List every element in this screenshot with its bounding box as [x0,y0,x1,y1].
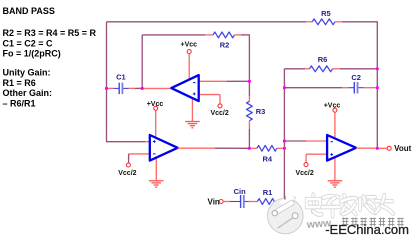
note text line [3,28,97,38]
svg-text:R2 = R3 = R4 = R5 = R: R2 = R3 = R4 = R5 = R [3,28,97,38]
note text line [3,67,51,77]
capacitor C2 [349,82,364,94]
terminal +Vcc U1 [187,50,191,54]
wire right feedback rail [376,21,378,148]
svg-text:Vcc/2: Vcc/2 [118,170,136,177]
U3 + mark [330,153,333,156]
svg-text:R2: R2 [220,41,230,50]
label Vcc/2 U3 [295,170,313,177]
wire top feedback net to R5 [107,21,307,23]
resistor R2 [205,32,249,38]
label Cin [234,187,247,196]
note text line [3,78,36,88]
capacitor C1 [113,83,128,95]
svg-text:+Vcc: +Vcc [324,102,341,109]
note text line [3,88,53,98]
wire +Vcc stub U3 [334,112,336,138]
wire R2 left vertical [141,35,143,89]
label R3 [256,107,266,116]
wire R2 right vertical to R3 [248,34,250,96]
terminal Vcc/2 U3 [304,163,308,167]
wire C1 left lead [107,87,114,89]
wire U2 - input stub to Vcc/2 [129,154,150,163]
watermark logo circle [268,196,304,234]
ground U3 [328,181,343,187]
label R6 [318,55,328,64]
label R4 [263,154,273,163]
op-amp U1 [171,75,198,101]
watermark brush text [307,195,393,217]
svg-text:R1 = R6: R1 = R6 [3,78,36,88]
resistor R1 [249,199,282,205]
wire U3 output [356,147,376,149]
wire U2 ground stub [155,157,157,181]
ground U1 [185,122,200,128]
wire +Vcc stub U2 [155,110,157,137]
svg-text:-EEChina.com: -EEChina.com [325,222,409,237]
junction node 6 [283,139,286,142]
svg-text:Unity Gain:: Unity Gain: [3,67,51,77]
resistor R5 [306,19,377,25]
wire U1 - input stub [199,80,250,82]
label +Vcc U1 [181,42,198,49]
op-amp U2 [150,135,178,161]
label R5 [321,9,331,18]
U1 - mark [193,82,195,84]
wire U1 output lead [142,87,171,89]
svg-text:BAND PASS: BAND PASS [3,6,55,16]
junction node 1 [105,87,108,90]
wire U1 ground stub [191,97,193,122]
note text line [3,6,55,16]
wire C2 left segment [286,87,349,89]
label Vout [394,144,412,153]
watermark small gray text [305,217,403,231]
wire U3 - input stub [284,140,327,142]
label C2 [351,73,361,82]
ground U2 [149,181,164,187]
svg-text:Vcc/2: Vcc/2 [210,110,228,117]
terminal +Vcc U3 [333,108,337,112]
note text line [3,38,54,48]
wire left input rail [106,22,145,142]
wire +Vcc stub U1 [188,54,190,80]
U1 + mark [193,93,196,96]
U3 - mark [331,141,333,143]
svg-text:– R6/R1: – R6/R1 [3,99,36,109]
svg-text:Vin: Vin [208,197,220,206]
svg-text:Other Gain:: Other Gain: [3,88,53,98]
U2 + mark [153,140,156,143]
label +Vcc U2 [147,101,164,108]
U2 - mark [153,153,155,155]
terminal Vcc/2 U1 [218,104,222,108]
wire output to Vout terminal [379,147,388,149]
resistor R6 [305,66,376,72]
svg-text:C1 = C2 = C: C1 = C2 = C [3,38,54,48]
wire C2 right lead [364,87,376,89]
junction node 9 [376,86,379,89]
label R2 [220,41,230,50]
wire U1 + input stub to Vcc/2 [199,95,220,104]
terminal +Vcc U2 [154,106,158,110]
label Vcc/2 U1 [210,110,228,117]
wire U3 + input stub to Vcc/2 [306,154,327,163]
label +Vcc U3 [324,102,341,109]
svg-text:Vout: Vout [394,144,412,153]
junction node 7 [283,86,286,89]
watermark EEChina.com text [325,222,409,237]
wire R6 left segment [284,68,305,70]
terminal Vcc/2 U2 [126,163,130,167]
resistor R4 [251,145,283,151]
svg-text:R4: R4 [263,154,273,163]
wire U3 ground stub [334,157,336,181]
wire middle column [281,69,284,202]
svg-text:+Vcc: +Vcc [147,101,164,108]
note text line [3,99,36,109]
svg-text:R6: R6 [318,55,328,64]
svg-text:Fo = 1/(2pRC): Fo = 1/(2pRC) [3,49,61,59]
note text line [3,49,61,59]
junction node 8 [376,67,379,70]
wire op-amp U2 + input stub [145,141,151,143]
junction node 4 [248,147,251,150]
label C1 [116,73,126,82]
svg-text:C1: C1 [116,73,126,82]
svg-text:R3: R3 [256,107,266,116]
op-amp U3 [327,135,356,161]
junction node 3 [248,80,251,83]
resistor R3 [247,96,253,148]
svg-text:R1: R1 [263,188,273,197]
label Vcc/2 U2 [118,170,136,177]
wire C1 right lead [129,87,143,89]
wire U2 output [178,147,250,149]
svg-text:R5: R5 [321,9,331,18]
svg-text:Vcc/2: Vcc/2 [295,170,313,177]
junction node 5 [283,147,286,150]
junction node 2 [141,87,144,90]
terminal Vout [387,146,391,150]
wire R2 top branch [142,34,205,36]
terminal Vin [219,200,223,204]
svg-text:Cin: Cin [234,187,247,196]
wire Vin lead [223,201,230,203]
svg-text:C2: C2 [351,73,361,82]
label Vin [208,197,220,206]
junction node 10 [376,147,379,150]
label R1 [263,188,273,197]
svg-text:+Vcc: +Vcc [181,42,198,49]
capacitor Cin [230,195,249,208]
